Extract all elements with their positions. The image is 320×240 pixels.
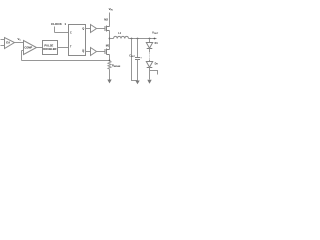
svg-text:1: 1 (64, 22, 66, 26)
buffer driver1 (91, 25, 97, 33)
inductor L1 (110, 38, 114, 40)
svg-text:EA: EA (6, 41, 10, 45)
svg-text:COMP: COMP (24, 46, 32, 50)
svg-text:COUT: COUT (129, 55, 136, 59)
svg-text:Q: Q (82, 49, 84, 53)
svg-text:D1: D1 (155, 42, 159, 45)
ground arrow below RSENSE (107, 80, 111, 84)
wire pulse doubler to flip-flop pin T (58, 47, 69, 49)
wire EA input stub top (1, 39, 5, 41)
pulse doubler block (43, 41, 58, 55)
svg-text:Dn: Dn (155, 63, 159, 66)
transistor M2 high-side MOSFET (105, 26, 110, 32)
buffer driver2 (91, 48, 97, 56)
wire COMP output (37, 47, 43, 49)
svg-text:M2: M2 (104, 18, 108, 22)
wire M1 drain up to switch node (109, 39, 111, 50)
svg-text:VIN: VIN (109, 7, 114, 12)
comparator COMP (24, 41, 37, 55)
wire buffer2 to M1 gate (97, 51, 106, 53)
svg-text:C: C (70, 31, 72, 34)
diode Dn LED bottom (146, 60, 158, 68)
wire clock vertical (54, 27, 56, 33)
wire clock to flip-flop (55, 32, 69, 34)
capacitor COUT (129, 39, 142, 81)
wire COMP lower input stub (22, 50, 24, 52)
wire output return branch (132, 39, 138, 81)
node VOUT terminal (154, 38, 156, 40)
wire M1 source down (109, 55, 111, 61)
flip-flop block (69, 25, 86, 56)
svg-text:L1: L1 (118, 32, 121, 35)
wire VIN down to M2 drain (109, 13, 111, 27)
svg-text:VC: VC (18, 37, 22, 42)
svg-text:RSENSE: RSENSE (112, 63, 121, 68)
wire M2 source to switch node (109, 31, 111, 39)
svg-text:CLOCK: CLOCK (51, 22, 63, 26)
wire dotted LED continuation (149, 54, 151, 60)
node LED junction (149, 38, 151, 40)
op-amp EA error amplifier (5, 38, 15, 49)
ground arrow below COUT (135, 81, 139, 85)
svg-text:PULSE: PULSE (44, 43, 53, 47)
wire Qbar to buffer2 (86, 51, 91, 53)
node sense junction (109, 60, 111, 62)
wire LED string (149, 49, 151, 53)
transistor M1 low-side MOSFET (105, 49, 110, 55)
node COUT junction (137, 38, 139, 40)
wire EA input stub bottom (1, 45, 5, 47)
wire current sense feedback line (22, 60, 110, 62)
ground arrow below LED string (147, 80, 151, 84)
wire COMP lower input down (21, 51, 23, 61)
svg-text:VOUT: VOUT (152, 31, 159, 36)
node output junction (131, 38, 133, 40)
wire buffer1 to M2 gate (97, 28, 106, 30)
wire RSENSE to ground (109, 69, 111, 79)
wire LED return stub (150, 71, 158, 75)
wire output rail (129, 38, 157, 40)
resistor RSENSE (108, 61, 111, 69)
wire LED bottom down (149, 68, 151, 80)
diode D1 LED top (146, 39, 158, 49)
wire Q to buffer1 (86, 28, 91, 30)
svg-text:DOUBLER: DOUBLER (43, 47, 56, 51)
wire EA output, node VC (15, 42, 24, 44)
svg-text:+: + (140, 57, 142, 59)
svg-text:Q: Q (82, 27, 84, 31)
node switch junction (109, 38, 111, 40)
